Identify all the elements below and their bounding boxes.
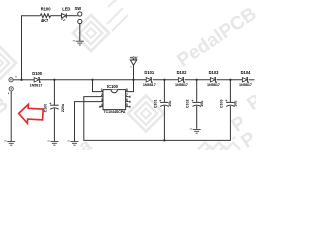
svg-text:D100: D100 xyxy=(32,71,43,76)
svg-text:8: 8 xyxy=(126,88,128,92)
svg-text:C101: C101 xyxy=(153,100,157,109)
svg-text:4K7: 4K7 xyxy=(41,18,49,23)
svg-text:1N5817: 1N5817 xyxy=(143,83,156,87)
svg-text:SW: SW xyxy=(74,6,81,11)
svg-text:10u: 10u xyxy=(234,101,238,107)
svg-text:IC100: IC100 xyxy=(107,84,119,89)
svg-text:1N5817: 1N5817 xyxy=(30,83,43,87)
svg-text:R100: R100 xyxy=(41,7,52,12)
svg-text:1N5817: 1N5817 xyxy=(175,83,188,87)
svg-text:1: 1 xyxy=(101,88,103,92)
svg-text:3: 3 xyxy=(101,98,103,102)
svg-text:220u: 220u xyxy=(61,104,65,112)
svg-text:C103: C103 xyxy=(219,100,223,109)
svg-text:D103: D103 xyxy=(209,70,220,75)
svg-text:10u: 10u xyxy=(168,101,172,107)
svg-text:1N5817: 1N5817 xyxy=(207,83,220,87)
svg-text:TC1044SCPA: TC1044SCPA xyxy=(103,110,125,114)
svg-text:D104: D104 xyxy=(241,70,252,75)
svg-text:C100: C100 xyxy=(43,104,47,113)
svg-text:1N5817: 1N5817 xyxy=(239,83,252,87)
svg-text:D102: D102 xyxy=(177,70,188,75)
svg-text:2: 2 xyxy=(101,93,103,97)
svg-text:C102: C102 xyxy=(186,100,190,109)
svg-text:5: 5 xyxy=(126,103,128,107)
svg-text:6: 6 xyxy=(126,98,128,102)
svg-text:+9V: +9V xyxy=(130,56,138,61)
svg-text:7: 7 xyxy=(126,93,128,97)
svg-text:LED: LED xyxy=(62,7,70,12)
svg-text:4: 4 xyxy=(101,103,103,107)
svg-text:D101: D101 xyxy=(144,70,155,75)
svg-text:10u: 10u xyxy=(200,101,204,107)
